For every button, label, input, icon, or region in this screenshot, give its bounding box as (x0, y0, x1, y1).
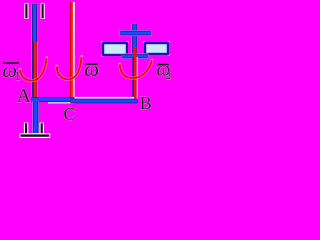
svg-text:1: 1 (14, 68, 21, 83)
shaft below A (blue, to bottom bearing) (32, 101, 39, 135)
bearing (bottom) left post (24, 123, 28, 135)
shaft B lower crossbar (122, 53, 149, 58)
shaft C middle (red) (70, 2, 75, 98)
svg-text:ω: ω (84, 57, 99, 81)
label omega-bar-2 (156, 59, 171, 83)
svg-text:B: B (140, 93, 152, 113)
rotation arrow omega2 (around shaft B) (120, 60, 152, 78)
rotation arrow omega1 (around shaft A) (20, 58, 46, 81)
shaft A upper segment (blue) (31, 4, 38, 44)
svg-text:2: 2 (166, 70, 172, 82)
label omega-bar (middle) (84, 57, 99, 81)
shaft B red core (inside vertical) (132, 47, 138, 103)
shaft B vertical (blue upper) (131, 24, 138, 58)
rotation arrow omega (around shaft C) (57, 57, 82, 80)
bearing (top, left shaft) right post (41, 3, 45, 19)
horizontal frame C-B (right segment) (71, 97, 138, 103)
flyweight box left (101, 41, 128, 56)
bearing (bottom) base (20, 133, 51, 138)
bearing (top, left shaft) left post (24, 3, 28, 19)
label omega-bar-1 (2, 58, 21, 83)
bearing (bottom) right post (40, 123, 44, 135)
arc tip highlights (19, 56, 153, 70)
svg-text:C: C (64, 104, 76, 124)
horizontal frame A-C (left segment) (31, 97, 75, 104)
shaft B top crossbar (120, 30, 152, 36)
shaft A lower segment (red core in blue sleeve) (31, 42, 38, 98)
svg-text:A: A (17, 85, 32, 107)
flyweight box right (143, 41, 169, 55)
